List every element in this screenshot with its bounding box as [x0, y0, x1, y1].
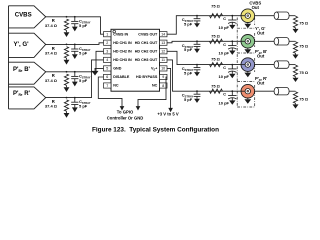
- svg-text:5 pF: 5 pF: [184, 71, 193, 76]
- svg-text:10 pF: 10 pF: [219, 25, 230, 30]
- svg-text:6: 6: [106, 75, 108, 79]
- svg-text:5 pF: 5 pF: [79, 50, 88, 55]
- svg-text:Out: Out: [257, 54, 265, 59]
- svg-text:C: C: [223, 65, 226, 70]
- svg-text:75 Ω: 75 Ω: [299, 96, 309, 101]
- svg-text:+3 V to 5 V: +3 V to 5 V: [157, 112, 179, 117]
- svg-text:1: 1: [106, 33, 108, 37]
- svg-text:HD CH2 IN: HD CH2 IN: [113, 50, 132, 54]
- svg-text:3: 3: [106, 50, 108, 54]
- svg-text:VS+: VS+: [151, 67, 157, 72]
- svg-text:10 pF: 10 pF: [219, 100, 230, 105]
- svg-text:5 pF: 5 pF: [79, 104, 88, 109]
- svg-text:GND: GND: [113, 67, 122, 71]
- svg-text:7: 7: [106, 84, 108, 88]
- svg-text:5 pF: 5 pF: [184, 47, 193, 52]
- svg-text:To GPIO: To GPIO: [117, 109, 134, 114]
- svg-text:CVBS: CVBS: [15, 12, 32, 19]
- svg-text:10 pF: 10 pF: [219, 74, 230, 79]
- svg-text:P'B, B': P'B, B': [13, 67, 31, 73]
- svg-text:75 Ω: 75 Ω: [299, 70, 309, 75]
- svg-text:37.4 Ω: 37.4 Ω: [45, 104, 58, 109]
- svg-text:75 Ω: 75 Ω: [211, 57, 221, 62]
- svg-text:C: C: [223, 92, 226, 97]
- svg-text:12: 12: [161, 50, 165, 54]
- svg-text:HD BYPASS: HD BYPASS: [136, 75, 158, 79]
- svg-text:37.4 Ω: 37.4 Ω: [45, 50, 58, 55]
- svg-text:Out: Out: [257, 80, 265, 85]
- svg-text:75 Ω: 75 Ω: [211, 33, 221, 38]
- svg-text:HD CH2 OUT: HD CH2 OUT: [135, 50, 158, 54]
- svg-text:5 pF: 5 pF: [184, 22, 193, 27]
- svg-text:75 Ω: 75 Ω: [211, 4, 221, 9]
- svg-text:9: 9: [162, 75, 164, 79]
- svg-text:Controller Or GND: Controller Or GND: [107, 115, 144, 120]
- svg-text:CVBS OUT: CVBS OUT: [138, 32, 158, 36]
- svg-text:Out: Out: [257, 30, 265, 35]
- svg-text:HD CH1 IN: HD CH1 IN: [113, 41, 132, 45]
- svg-text:13: 13: [161, 41, 165, 45]
- svg-text:37.4 Ω: 37.4 Ω: [45, 78, 58, 83]
- svg-text:HD CH1 OUT: HD CH1 OUT: [135, 41, 158, 45]
- svg-text:HD CH3 OUT: HD CH3 OUT: [135, 58, 158, 62]
- svg-text:75 Ω: 75 Ω: [299, 21, 309, 26]
- svg-text:10 pF: 10 pF: [219, 51, 230, 56]
- svg-text:Y', G': Y', G': [13, 41, 29, 48]
- svg-text:5 pF: 5 pF: [79, 78, 88, 83]
- svg-text:C: C: [223, 42, 226, 47]
- svg-text:14: 14: [161, 33, 165, 37]
- svg-text:75 Ω: 75 Ω: [211, 83, 221, 88]
- svg-text:NC: NC: [113, 84, 119, 88]
- svg-text:8: 8: [162, 84, 164, 88]
- svg-text:5 pF: 5 pF: [79, 23, 88, 28]
- svg-text:11: 11: [161, 58, 165, 62]
- svg-text:10: 10: [161, 67, 165, 71]
- svg-text:75 Ω: 75 Ω: [299, 44, 309, 49]
- svg-text:Figure 123. Typical System Co: Figure 123. Typical System Configuration: [92, 127, 219, 134]
- svg-text:C: C: [223, 16, 226, 21]
- svg-text:5: 5: [106, 67, 108, 71]
- svg-text:2: 2: [106, 41, 108, 45]
- svg-text:NC: NC: [152, 84, 158, 88]
- svg-text:HD CH3 IN: HD CH3 IN: [113, 58, 132, 62]
- svg-text:Out: Out: [252, 5, 260, 10]
- svg-text:5 pF: 5 pF: [184, 97, 193, 102]
- svg-text:DISABLE: DISABLE: [113, 75, 130, 79]
- svg-text:P'R, R': P'R, R': [13, 91, 31, 97]
- svg-text:4: 4: [106, 58, 108, 62]
- svg-text:CVBS IN: CVBS IN: [113, 32, 128, 36]
- svg-text:37.4 Ω: 37.4 Ω: [45, 23, 58, 28]
